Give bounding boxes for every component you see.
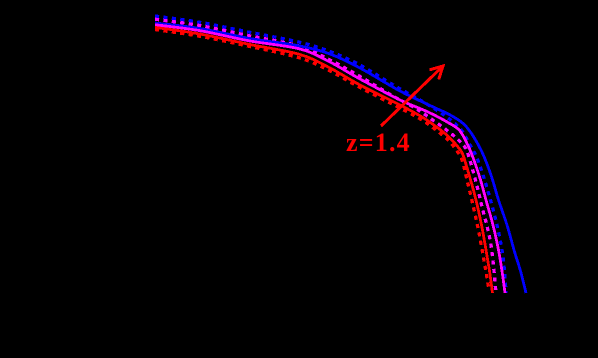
magenta dashed curve [155, 19, 496, 293]
red annotation arrow pointing up-right [381, 66, 443, 126]
blue dashed curve [155, 16, 506, 293]
red solid curve [155, 27, 493, 293]
label z=1.4 [346, 128, 411, 158]
blue solid curve z=1.4 model A [155, 23, 526, 293]
magenta solid curve [155, 25, 505, 293]
red dashed curve [155, 30, 489, 291]
